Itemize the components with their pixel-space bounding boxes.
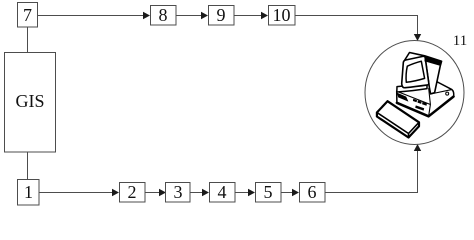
svg-text:2: 2	[128, 182, 137, 202]
svg-text:GIS: GIS	[15, 91, 44, 111]
svg-text:4: 4	[218, 182, 227, 202]
svg-text:5: 5	[264, 182, 273, 202]
svg-text:8: 8	[159, 5, 168, 25]
svg-text:1: 1	[24, 182, 33, 202]
svg-text:3: 3	[174, 182, 183, 202]
svg-text:6: 6	[308, 182, 317, 202]
svg-text:10: 10	[273, 5, 291, 25]
svg-text:11: 11	[453, 33, 467, 49]
svg-text:9: 9	[217, 5, 226, 25]
svg-text:7: 7	[23, 5, 32, 25]
